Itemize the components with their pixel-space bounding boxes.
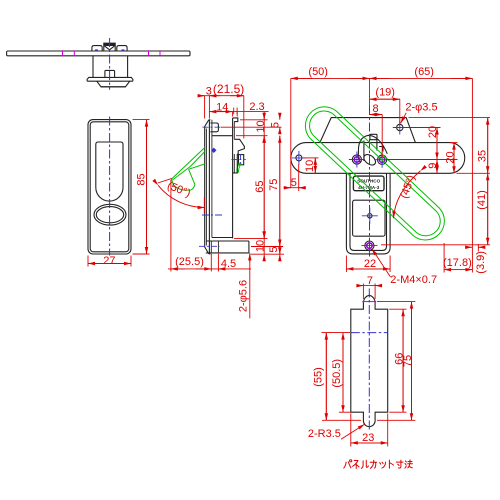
svg-text:5: 5 <box>269 122 281 128</box>
dim (17.8) line <box>444 269 458 271</box>
front view centerline <box>109 117 111 256</box>
svg-text:5: 5 <box>291 177 297 189</box>
right view centerline <box>369 106 371 257</box>
thumb oval outer <box>94 204 126 225</box>
panel cutout outline <box>351 295 388 426</box>
cam tilted end ellipse <box>362 152 378 167</box>
kana small tsu <box>380 462 386 468</box>
side plate west edge with bevels <box>205 120 209 254</box>
housing front wall <box>211 120 213 238</box>
dim 8 line <box>370 114 383 116</box>
kana ru <box>361 460 368 468</box>
dim 22 ext left <box>345 256 347 273</box>
bottom screw outer <box>365 241 374 250</box>
right screw hidden mark <box>121 49 124 51</box>
open handle phantom stadium inner <box>310 111 441 236</box>
bottom screw cross <box>361 238 377 254</box>
magenta tick 1 <box>62 50 64 56</box>
tab shoulder dot right <box>374 301 376 303</box>
dim 9 line <box>436 160 438 174</box>
dim 65 line <box>263 136 265 239</box>
dim 10L ext <box>303 157 319 159</box>
svg-text:(65): (65) <box>414 66 434 78</box>
dim 23 line <box>351 442 388 444</box>
svg-text:4.5: 4.5 <box>221 258 236 270</box>
dim 85 ext top <box>133 119 150 121</box>
magenta tick 2 <box>73 50 75 56</box>
left screw tab <box>92 46 102 51</box>
svg-text:23: 23 <box>362 432 374 444</box>
svg-text:SOUTHCO: SOUTHCO <box>357 179 380 184</box>
dim 50deg ref seg b <box>203 197 205 214</box>
foot stub left <box>210 241 212 253</box>
open handle phantom hook <box>171 169 195 190</box>
svg-text:2-φ3.5: 2-φ3.5 <box>405 101 437 113</box>
body left side <box>92 56 94 78</box>
dim 20a line <box>436 128 438 160</box>
kana to <box>389 460 393 468</box>
dim (41) ext bottom <box>381 244 490 246</box>
right screw tab <box>117 46 127 51</box>
dim 10 top line <box>263 112 265 136</box>
cavity bottom line <box>212 237 233 239</box>
dim 85 ext bottom <box>133 253 150 255</box>
body right side <box>127 56 129 78</box>
dim 66 ext top <box>389 308 406 310</box>
left hole cross <box>292 151 306 165</box>
dim 8 ext down <box>381 115 383 159</box>
dim (19) line <box>370 98 400 100</box>
dim 3/21.5 ext a <box>204 96 206 119</box>
center V block top band <box>104 43 115 46</box>
svg-text:7: 7 <box>367 275 373 287</box>
foot right end <box>248 241 250 253</box>
cam block inner edge <box>238 155 240 165</box>
dim (19) ext right <box>399 99 401 123</box>
svg-text:8: 8 <box>372 103 378 115</box>
svg-text:(55): (55) <box>313 367 325 387</box>
dim phi5.6 leader <box>249 253 251 319</box>
tab shoulder dot left <box>362 301 364 303</box>
dim 85 line <box>146 120 148 254</box>
svg-text:(19): (19) <box>375 86 395 98</box>
dim 7 ext a <box>362 284 364 300</box>
magenta tick 3 <box>148 50 150 56</box>
svg-text:22: 22 <box>364 258 376 270</box>
foot top line <box>207 240 249 242</box>
thumb oval inner <box>96 207 123 223</box>
dim 23 ext left <box>350 414 352 447</box>
handle recess <box>96 142 123 201</box>
dim 21.5 ext c <box>243 96 245 139</box>
left screw outer <box>352 155 361 164</box>
flange tier1 <box>87 77 133 81</box>
housing step <box>233 165 238 173</box>
dim 27 ext left <box>87 256 89 267</box>
left screw inner <box>354 157 359 162</box>
svg-text:10: 10 <box>255 240 267 252</box>
panel tab ext <box>377 301 415 303</box>
body inner rect <box>353 200 385 236</box>
dim 35 ext bottom <box>457 172 491 174</box>
svg-text:75: 75 <box>268 179 280 191</box>
cam centerline v <box>240 154 242 166</box>
svg-text:(25.5): (25.5) <box>175 256 204 268</box>
dim 55/50.5 ext top <box>322 332 351 334</box>
dim 14 ext right <box>232 112 234 117</box>
kana ka <box>370 460 377 468</box>
dim 25.5/4.5 line <box>168 268 251 270</box>
left hole circle <box>296 155 302 161</box>
dim (41) line <box>487 173 489 245</box>
dim (50) ext left <box>290 78 292 187</box>
dim (17.8) ext left <box>443 243 445 273</box>
cam phantom arc <box>237 163 241 173</box>
dim 5L ext <box>298 164 300 191</box>
dim 10 bottom ext a <box>234 237 268 239</box>
dim 5L line <box>284 187 307 189</box>
dim 10L line <box>314 158 316 173</box>
dim (55) ext bottom <box>322 419 361 421</box>
svg-text:(17.8): (17.8) <box>443 257 472 269</box>
inner rect center cross <box>362 208 378 224</box>
svg-text:(50.5): (50.5) <box>331 359 343 388</box>
svg-text:(50): (50) <box>308 66 328 78</box>
panel centerline v <box>368 289 370 433</box>
dim M4 leader <box>372 249 391 277</box>
catch tab centerline <box>203 126 221 128</box>
dim (65) ext right <box>471 78 473 272</box>
kanji sun <box>396 460 403 468</box>
label box <box>353 176 384 191</box>
DIMS <box>88 78 490 446</box>
dim (50.5) line <box>342 333 344 413</box>
cam inner right line <box>376 140 378 151</box>
side plate inner parallel line <box>205 129 207 246</box>
dim 5 bottom ext a <box>251 246 283 248</box>
foot bottom line <box>206 252 249 254</box>
cam block <box>237 155 243 165</box>
TOPVIEW <box>7 38 190 90</box>
dim (50.5) ext bottom <box>339 411 351 413</box>
dim 50deg ref seg a <box>158 178 172 183</box>
dim 7 ext b <box>374 284 376 300</box>
dim 5 top line <box>279 113 281 120</box>
svg-text:75: 75 <box>402 355 414 367</box>
svg-text:(21.5): (21.5) <box>213 82 244 96</box>
center ext <box>369 78 371 114</box>
dim 50deg arc <box>158 185 205 207</box>
body inner walls <box>350 173 387 250</box>
dim 20a ext top <box>404 127 441 129</box>
dim 22 ext right <box>389 256 391 273</box>
body outer <box>346 173 390 254</box>
open handle phantom stadium outer <box>305 107 444 240</box>
wing outline <box>291 143 465 174</box>
dim 5 bottom ext b <box>251 253 284 255</box>
right screw outer <box>378 155 387 164</box>
phi3.5 hole circle <box>397 124 403 130</box>
pivot marker diamond <box>211 148 216 153</box>
dim R3.5 leader <box>341 424 365 439</box>
foot hole centerline <box>199 245 220 247</box>
cam top block <box>370 134 377 139</box>
center stub <box>105 70 115 77</box>
dim (3.9) ext <box>477 244 479 252</box>
dim 27 line <box>88 263 131 265</box>
top view centerline <box>109 38 111 90</box>
svg-text:5: 5 <box>268 247 280 253</box>
dim 7 line <box>357 285 383 287</box>
side plate back line <box>209 120 211 254</box>
FRONTVIEW <box>88 117 131 256</box>
svg-text:27: 27 <box>103 255 115 267</box>
latch hook <box>234 139 244 154</box>
dim 5 bottom arrows <box>279 240 281 246</box>
panel centerline h <box>351 332 388 334</box>
dim 23 ext right <box>387 414 389 447</box>
catch tab <box>210 123 218 132</box>
svg-text:2-M4×0.7: 2-M4×0.7 <box>390 274 437 286</box>
kana ne <box>353 461 359 469</box>
kanji hou <box>405 460 413 468</box>
open handle phantom inner <box>173 167 191 181</box>
dim (50)/(65) line <box>291 77 473 79</box>
MIDVIEW <box>171 118 249 254</box>
housing top edge <box>233 118 238 122</box>
svg-text:(3.9): (3.9) <box>475 251 487 274</box>
JP CAPTION <box>344 460 413 469</box>
svg-text:10: 10 <box>304 160 316 172</box>
right screw inner <box>379 157 384 162</box>
svg-text:9: 9 <box>427 163 439 169</box>
tab arc center cross <box>362 301 376 303</box>
left screw cross <box>349 152 365 168</box>
top view wing bar <box>7 51 190 56</box>
open handle phantom line2 <box>189 164 205 169</box>
oval centerline <box>202 214 224 216</box>
cam dome left foot <box>358 153 360 163</box>
left screw hidden mark <box>95 49 98 51</box>
PANELVIEW <box>351 289 388 433</box>
housing back wall <box>232 118 234 238</box>
dim 10 top ext a <box>240 119 268 121</box>
dim 14/2.3 line <box>209 111 268 113</box>
phi3.5 hole cross <box>393 121 407 135</box>
dim 66 line <box>402 309 404 412</box>
magenta tick 4 <box>159 50 161 56</box>
dim 2.3 ext right <box>236 112 238 117</box>
dim phi3.5 leader <box>401 113 407 124</box>
flange tier2 bottom <box>101 86 126 88</box>
RIGHTVIEW <box>291 106 465 257</box>
kana pa <box>344 460 352 468</box>
dim 66 ext bottom <box>389 411 406 413</box>
svg-text:20: 20 <box>427 126 439 138</box>
svg-text:2-φ5.6: 2-φ5.6 <box>237 280 249 312</box>
svg-text:14: 14 <box>216 102 228 114</box>
open handle phantom line1 <box>171 148 204 180</box>
svg-text:20: 20 <box>444 151 456 163</box>
right screw cross <box>374 152 390 168</box>
bezel inner rect <box>90 122 129 252</box>
svg-text:85: 85 <box>135 173 147 185</box>
svg-text:2-R3.5: 2-R3.5 <box>308 428 341 440</box>
dim 75p line <box>411 302 413 421</box>
cam inner left line <box>363 141 365 162</box>
dim 27 ext right <box>130 256 132 267</box>
flange tier2 trapezoid <box>97 81 130 87</box>
dim 20b ext top <box>450 142 458 144</box>
dim 20b line <box>453 143 455 174</box>
bottom screw inner <box>367 243 372 248</box>
inner rect center circle <box>368 214 372 218</box>
cam dome <box>358 135 387 154</box>
svg-text:(41): (41) <box>476 190 488 210</box>
dim 75 line <box>279 136 281 255</box>
foot stub right <box>217 241 219 253</box>
dim 5 top ext <box>221 126 282 128</box>
dim 10 top ext b <box>236 135 268 137</box>
housing top inner line <box>212 135 233 137</box>
cam centerline h <box>231 159 245 161</box>
dim 35 line <box>487 118 489 174</box>
svg-text:2.3: 2.3 <box>249 101 264 113</box>
dim (55) line <box>325 333 327 421</box>
open handle phantom link <box>190 152 205 167</box>
screws ext line <box>387 159 458 161</box>
svg-text:10: 10 <box>255 120 267 132</box>
center V block <box>104 43 115 51</box>
center V notch <box>105 46 115 50</box>
dim 45deg arc <box>394 171 421 218</box>
dim 3/21.5 ext b <box>208 96 210 119</box>
bezel outer rect <box>88 120 131 254</box>
svg-text:65: 65 <box>254 180 266 192</box>
dim 3/21.5 line <box>198 95 244 97</box>
dim 25.5/4.5 ext lines <box>210 254 212 272</box>
dim (3.9) arrows <box>466 246 472 248</box>
wing hump <box>320 118 416 143</box>
svg-text:3: 3 <box>206 85 212 97</box>
dim 10 bottom line arrows <box>263 233 265 239</box>
dim 75p ext bottom <box>377 419 415 421</box>
housing back wall inner <box>233 122 235 173</box>
dim 25.5 ext handle face <box>170 180 172 272</box>
dim 22 line <box>346 268 390 270</box>
dim 35 ext top <box>409 117 491 119</box>
svg-text:35: 35 <box>477 150 489 162</box>
cam right step <box>379 147 383 152</box>
